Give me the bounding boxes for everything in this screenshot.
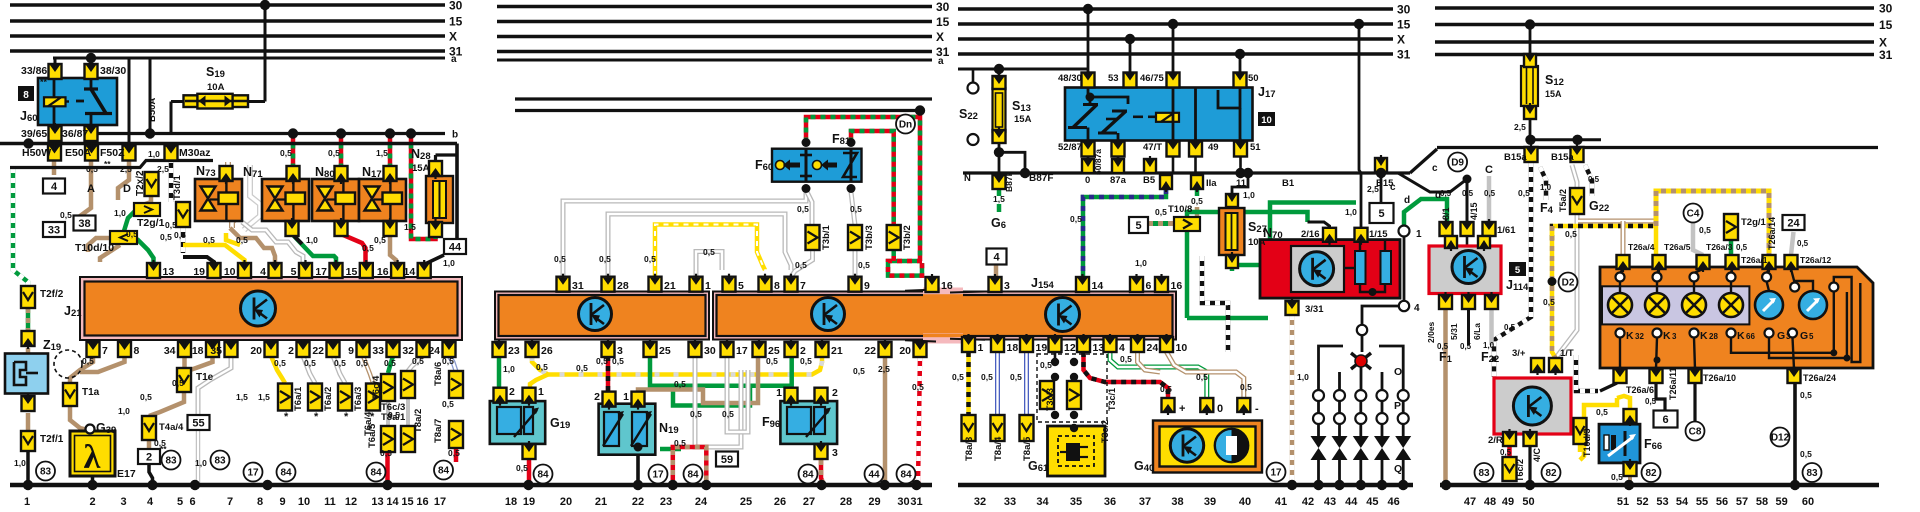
svg-text:T26a/14: T26a/14 bbox=[1767, 217, 1777, 250]
svg-text:50: 50 bbox=[1522, 496, 1534, 508]
svg-text:B87F: B87F bbox=[1004, 171, 1014, 192]
svg-text:1,0: 1,0 bbox=[118, 406, 130, 416]
svg-text:16: 16 bbox=[941, 280, 953, 292]
svg-text:47: 47 bbox=[1464, 496, 1476, 508]
svg-text:0,5: 0,5 bbox=[722, 409, 734, 419]
svg-text:11: 11 bbox=[1236, 178, 1247, 189]
svg-text:15A: 15A bbox=[1014, 114, 1032, 125]
svg-text:0,5: 0,5 bbox=[952, 372, 964, 382]
svg-text:17: 17 bbox=[315, 266, 327, 278]
svg-text:4: 4 bbox=[1119, 342, 1125, 354]
svg-text:2: 2 bbox=[832, 387, 838, 399]
svg-text:K: K bbox=[1663, 330, 1671, 342]
svg-text:0,5: 0,5 bbox=[674, 438, 686, 448]
svg-text:33: 33 bbox=[372, 345, 384, 357]
svg-text:23: 23 bbox=[660, 496, 672, 508]
svg-text:40: 40 bbox=[1239, 496, 1251, 508]
svg-text:1,5: 1,5 bbox=[376, 148, 388, 158]
svg-text:8: 8 bbox=[134, 345, 140, 357]
red/green drops from b line to injectors bbox=[291, 134, 296, 167]
svg-text:0,5: 0,5 bbox=[1736, 243, 1748, 252]
svg-text:48: 48 bbox=[1484, 496, 1496, 508]
svg-text:T1a: T1a bbox=[82, 387, 100, 398]
svg-text:26: 26 bbox=[774, 496, 786, 508]
line y=69 (feeds S13/S22, from bus30 vertical at 1088) bbox=[958, 68, 1088, 71]
svg-text:λ: λ bbox=[84, 439, 101, 476]
svg-text:34: 34 bbox=[1036, 496, 1049, 508]
staircase brown + white to pins 4/5 bbox=[230, 228, 275, 264]
svg-text:0,5: 0,5 bbox=[1070, 214, 1082, 224]
svg-text:0,5: 0,5 bbox=[795, 260, 807, 270]
svg-text:1,5: 1,5 bbox=[258, 392, 270, 402]
svg-text:1: 1 bbox=[1416, 229, 1422, 240]
svg-text:0,5: 0,5 bbox=[384, 358, 396, 368]
red/black pin3A -> N19 pin2 bbox=[606, 356, 611, 392]
connectors row2 bbox=[48, 146, 61, 161]
svg-text:0,5: 0,5 bbox=[60, 210, 72, 220]
green wire T2g/1 -> T10d/10 -> J21 pin13 bbox=[124, 210, 136, 231]
svg-text:83: 83 bbox=[214, 456, 226, 467]
svg-text:T26a/11: T26a/11 bbox=[1668, 367, 1678, 400]
C4 + T2g/1 + 24 feeds bbox=[1684, 204, 1703, 223]
svg-text:21: 21 bbox=[831, 345, 843, 357]
green wires pins 25/2 to sensor F96 bbox=[650, 356, 792, 386]
svg-text:**: ** bbox=[160, 444, 167, 454]
svg-text:0,5: 0,5 bbox=[356, 358, 368, 368]
svg-text:2,5: 2,5 bbox=[1514, 122, 1526, 132]
svg-text:12: 12 bbox=[345, 496, 357, 508]
svg-text:44: 44 bbox=[1345, 496, 1358, 508]
svg-text:14: 14 bbox=[386, 496, 399, 508]
svg-text:46: 46 bbox=[1387, 496, 1399, 508]
svg-text:2,5: 2,5 bbox=[120, 164, 132, 174]
svg-text:50: 50 bbox=[1248, 73, 1259, 84]
teal sensors bottom wires bbox=[527, 460, 532, 485]
svg-text:0,5: 0,5 bbox=[1160, 384, 1172, 394]
svg-text:25: 25 bbox=[659, 345, 671, 357]
svg-text:c: c bbox=[1390, 182, 1396, 193]
svg-text:2,5: 2,5 bbox=[1367, 184, 1379, 194]
svg-text:4: 4 bbox=[51, 181, 58, 193]
svg-text:2: 2 bbox=[89, 496, 95, 508]
svg-text:T3c/3: T3c/3 bbox=[1045, 388, 1055, 411]
svg-text:0,5: 0,5 bbox=[850, 204, 862, 214]
svg-text:19: 19 bbox=[523, 496, 535, 508]
svg-text:17: 17 bbox=[736, 345, 748, 357]
svg-text:18: 18 bbox=[1007, 342, 1019, 354]
svg-text:1/15: 1/15 bbox=[1369, 229, 1388, 240]
svg-text:0,5: 0,5 bbox=[165, 220, 177, 230]
svg-text:O: O bbox=[1394, 366, 1402, 378]
svg-text:28: 28 bbox=[617, 280, 629, 292]
svg-text:28: 28 bbox=[840, 496, 852, 508]
svg-text:0,5: 0,5 bbox=[1196, 372, 1208, 382]
pin 22B brown down / pin 20B red-white down bbox=[883, 356, 888, 485]
svg-text:0,5: 0,5 bbox=[1010, 372, 1022, 382]
svg-text:T3c/1: T3c/1 bbox=[1107, 388, 1117, 411]
svg-text:84: 84 bbox=[280, 468, 292, 479]
svg-text:29: 29 bbox=[868, 496, 880, 508]
wire gauge value labels panel 2 bbox=[993, 76, 1006, 89]
svg-text:36: 36 bbox=[1104, 496, 1116, 508]
svg-text:66: 66 bbox=[1746, 332, 1755, 341]
lambda probe G39 bbox=[70, 431, 115, 476]
svg-text:24: 24 bbox=[1147, 342, 1159, 354]
svg-text:0,5: 0,5 bbox=[1240, 382, 1252, 392]
svg-text:60: 60 bbox=[1802, 496, 1814, 508]
svg-text:B1: B1 bbox=[1282, 178, 1295, 189]
svg-text:17: 17 bbox=[247, 468, 259, 479]
svg-text:0,5: 0,5 bbox=[140, 392, 152, 402]
svg-text:1: 1 bbox=[538, 386, 544, 398]
svg-text:1,5: 1,5 bbox=[993, 194, 1005, 204]
svg-text:C: C bbox=[1485, 164, 1493, 176]
svg-text:1: 1 bbox=[705, 280, 711, 292]
injector pins bbox=[220, 166, 233, 181]
N73 top black bbox=[224, 166, 228, 180]
svg-text:49: 49 bbox=[1208, 142, 1219, 153]
green/brown wire from left down to Z19 bbox=[13, 168, 28, 286]
svg-text:K: K bbox=[1700, 330, 1708, 342]
svg-text:17: 17 bbox=[1270, 468, 1282, 479]
yellow diagonal from N73 bottom area bbox=[226, 233, 240, 245]
engine control unit J21 bbox=[80, 277, 462, 340]
wires from B15a pins bbox=[1494, 162, 1531, 377]
svg-text:19: 19 bbox=[1036, 342, 1048, 354]
svg-text:1,0: 1,0 bbox=[114, 208, 126, 218]
svg-text:N: N bbox=[964, 173, 971, 184]
hall sender G40 bbox=[1153, 421, 1262, 473]
svg-text:*: * bbox=[344, 411, 349, 423]
svg-text:21: 21 bbox=[664, 280, 676, 292]
svg-text:d: d bbox=[1404, 195, 1410, 206]
svg-text:0,5: 0,5 bbox=[1800, 390, 1812, 400]
svg-text:19: 19 bbox=[193, 266, 205, 278]
svg-text:8: 8 bbox=[774, 280, 780, 292]
svg-text:0,5: 0,5 bbox=[596, 356, 608, 366]
bus lines 30/15/X/31/a panel 2 bbox=[497, 5, 932, 8]
sensors G19 N19 F96 bbox=[490, 401, 545, 444]
svg-text:16: 16 bbox=[416, 496, 428, 508]
svg-text:0,5: 0,5 bbox=[236, 235, 248, 245]
svg-text:14: 14 bbox=[1092, 280, 1104, 292]
svg-text:0,5: 0,5 bbox=[1040, 360, 1052, 370]
svg-text:58: 58 bbox=[1756, 496, 1768, 508]
svg-text:2/R: 2/R bbox=[1488, 435, 1503, 446]
S13 bottom chain bbox=[998, 143, 1001, 175]
svg-text:T8a/4: T8a/4 bbox=[993, 436, 1004, 461]
svg-text:1,0: 1,0 bbox=[443, 258, 455, 268]
svg-text:0,5: 0,5 bbox=[362, 243, 374, 253]
svg-text:33: 33 bbox=[48, 225, 60, 237]
svg-text:43: 43 bbox=[1324, 496, 1336, 508]
svg-text:H50W: H50W bbox=[22, 147, 51, 159]
B15 vertical from bus 15 bbox=[1359, 24, 1361, 173]
bottom pin wires bbox=[1656, 383, 1665, 411]
svg-text:35: 35 bbox=[210, 345, 222, 357]
svg-text:T8a/3: T8a/3 bbox=[964, 437, 975, 461]
svg-text:0: 0 bbox=[1217, 403, 1223, 415]
svg-text:T26a/1: T26a/1 bbox=[1741, 255, 1768, 265]
svg-text:49: 49 bbox=[1502, 496, 1514, 508]
svg-text:84: 84 bbox=[438, 466, 450, 477]
3/31 wire down bbox=[1290, 315, 1295, 485]
svg-text:0,5: 0,5 bbox=[448, 448, 460, 458]
relay J60 bbox=[38, 78, 117, 125]
svg-text:53: 53 bbox=[1108, 73, 1119, 84]
injectors N73 N71 N80 N17 bbox=[195, 179, 242, 221]
svg-text:1,0: 1,0 bbox=[1243, 190, 1255, 200]
svg-text:82: 82 bbox=[1645, 468, 1657, 479]
svg-text:33: 33 bbox=[1004, 496, 1016, 508]
svg-text:30: 30 bbox=[1397, 3, 1411, 17]
svg-text:16: 16 bbox=[1171, 280, 1183, 292]
F66 + T10d/3 + yellow wires bbox=[1600, 383, 1617, 391]
fuse S12 15A from bus 15 bbox=[1529, 25, 1532, 57]
T6a/T8a cluster bbox=[278, 384, 292, 411]
S19 fuse bbox=[184, 95, 249, 107]
svg-text:0,5: 0,5 bbox=[981, 372, 993, 382]
svg-text:84: 84 bbox=[900, 470, 912, 481]
svg-text:6: 6 bbox=[1146, 280, 1152, 292]
svg-text:30: 30 bbox=[1879, 2, 1893, 16]
G39 black down bbox=[91, 474, 95, 485]
svg-text:IIa: IIa bbox=[1206, 178, 1217, 189]
svg-text:G: G bbox=[1777, 330, 1785, 342]
T6a cluster wires bbox=[271, 356, 285, 383]
svg-text:3: 3 bbox=[120, 496, 126, 508]
svg-text:1: 1 bbox=[24, 496, 30, 508]
wire yellow/brown to pin 1/T with junction D2 bbox=[1552, 226, 1556, 358]
svg-text:0,5: 0,5 bbox=[1596, 407, 1608, 417]
svg-text:1,0: 1,0 bbox=[1483, 341, 1495, 350]
svg-text:2,5: 2,5 bbox=[878, 364, 890, 374]
svg-text:1: 1 bbox=[978, 342, 984, 354]
wide beige/white band (A/D wires) bbox=[228, 162, 240, 228]
svg-text:*: * bbox=[314, 411, 319, 423]
svg-text:3: 3 bbox=[1672, 332, 1677, 341]
svg-text:15A: 15A bbox=[1545, 89, 1562, 99]
ignition distributor with spark plugs O/P/Q bbox=[1355, 355, 1367, 367]
svg-text:15A: 15A bbox=[412, 163, 430, 174]
line pins above bbox=[1082, 159, 1094, 173]
svg-text:0,5: 0,5 bbox=[1611, 472, 1623, 482]
svg-text:48/30: 48/30 bbox=[1058, 73, 1082, 84]
svg-text:7: 7 bbox=[102, 345, 108, 357]
brown N19 pin1 chain bbox=[638, 356, 758, 403]
svg-text:2: 2 bbox=[509, 386, 515, 398]
svg-text:1: 1 bbox=[776, 387, 782, 399]
svg-text:0,5: 0,5 bbox=[1191, 196, 1203, 206]
svg-text:0,5: 0,5 bbox=[1155, 207, 1167, 217]
svg-text:31: 31 bbox=[910, 496, 922, 508]
svg-text:4: 4 bbox=[147, 496, 154, 508]
svg-text:1: 1 bbox=[623, 391, 629, 403]
svg-text:0,5: 0,5 bbox=[1588, 175, 1600, 184]
green d-wire to 8/1 bbox=[1404, 199, 1447, 226]
svg-text:8: 8 bbox=[23, 90, 29, 101]
svg-text:T2x/2: T2x/2 bbox=[135, 170, 146, 196]
svg-text:2: 2 bbox=[594, 391, 600, 403]
svg-text:8/1: 8/1 bbox=[1441, 207, 1451, 220]
svg-text:T5a/2: T5a/2 bbox=[1558, 189, 1568, 212]
svg-text:0,5: 0,5 bbox=[690, 409, 702, 419]
svg-text:T4a/4: T4a/4 bbox=[159, 422, 184, 433]
relay J114 bbox=[1429, 246, 1501, 294]
black/white striped from N70 area down to G40 region bbox=[1202, 256, 1228, 352]
svg-text:0,5: 0,5 bbox=[334, 358, 346, 368]
svg-text:0,5: 0,5 bbox=[172, 378, 184, 388]
svg-text:**: ** bbox=[104, 159, 111, 169]
svg-text:0,5: 0,5 bbox=[1120, 354, 1132, 364]
svg-text:20: 20 bbox=[899, 345, 911, 357]
svg-text:0,5: 0,5 bbox=[82, 356, 94, 366]
svg-text:3/31: 3/31 bbox=[1305, 304, 1324, 315]
svg-text:B15a: B15a bbox=[1504, 152, 1527, 163]
svg-text:2/0es: 2/0es bbox=[1426, 321, 1436, 343]
svg-text:0,5: 0,5 bbox=[1504, 323, 1516, 332]
svg-text:T10d/3: T10d/3 bbox=[1582, 428, 1592, 457]
T2x/2 down brown bbox=[140, 196, 151, 206]
valve N28 with fuse 15A bbox=[426, 176, 453, 223]
svg-text:15: 15 bbox=[401, 496, 413, 508]
svg-text:42: 42 bbox=[1302, 496, 1314, 508]
svg-text:0,5: 0,5 bbox=[766, 356, 778, 366]
fuse S27 10A bbox=[1232, 173, 1248, 196]
cluster internal wiring bbox=[1620, 269, 1623, 273]
T connectors bbox=[145, 172, 159, 196]
svg-text:T6a/2: T6a/2 bbox=[323, 387, 334, 411]
svg-text:b: b bbox=[452, 130, 458, 141]
svg-text:E17: E17 bbox=[117, 468, 136, 480]
svg-text:0,5: 0,5 bbox=[1500, 448, 1512, 457]
svg-text:0,5: 0,5 bbox=[612, 356, 624, 366]
svg-text:25: 25 bbox=[740, 496, 752, 508]
svg-text:0,5: 0,5 bbox=[274, 358, 286, 368]
svg-text:37: 37 bbox=[1139, 496, 1151, 508]
svg-text:**: ** bbox=[40, 77, 48, 87]
svg-text:T3b/2: T3b/2 bbox=[902, 225, 913, 250]
svg-text:0,5: 0,5 bbox=[1565, 229, 1577, 239]
bus lines 30/15/X/31 panel 4 bbox=[1435, 6, 1874, 9]
svg-text:0,5: 0,5 bbox=[599, 254, 611, 264]
T3b connectors bbox=[806, 225, 820, 250]
svg-text:T3c/2: T3c/2 bbox=[1100, 420, 1110, 443]
svg-text:57: 57 bbox=[1736, 496, 1748, 508]
svg-text:T26a/4: T26a/4 bbox=[1628, 242, 1655, 252]
red/brown gate loop tracks 23-24 bbox=[673, 447, 707, 485]
svg-text:0,5: 0,5 bbox=[374, 235, 386, 245]
svg-text:53: 53 bbox=[1656, 496, 1668, 508]
svg-text:T10/8: T10/8 bbox=[1168, 204, 1192, 215]
svg-text:30: 30 bbox=[449, 0, 463, 13]
J154 bottom wires bbox=[966, 352, 971, 415]
svg-text:T6c/4: T6c/4 bbox=[371, 375, 382, 400]
svg-text:32: 32 bbox=[1635, 332, 1644, 341]
svg-text:44: 44 bbox=[449, 242, 462, 254]
svg-text:6: 6 bbox=[1662, 414, 1668, 426]
svg-text:1,0: 1,0 bbox=[1345, 207, 1357, 217]
svg-text:T2g/1: T2g/1 bbox=[1741, 217, 1767, 228]
svg-text:a: a bbox=[938, 56, 944, 67]
yellow long horizontal pin26->pin21B + G19 pin1 bbox=[532, 356, 822, 375]
box A/B bottom wires bbox=[497, 356, 502, 388]
red/black pin13 -> G40 + bbox=[1084, 352, 1169, 398]
svg-text:0: 0 bbox=[1085, 175, 1090, 186]
svg-text:51: 51 bbox=[1617, 496, 1629, 508]
svg-text:22: 22 bbox=[864, 345, 876, 357]
svg-text:6/La: 6/La bbox=[1472, 323, 1482, 340]
svg-text:3: 3 bbox=[832, 447, 838, 459]
svg-text:Dn: Dn bbox=[899, 120, 912, 131]
svg-text:T6a/5: T6a/5 bbox=[367, 423, 378, 448]
svg-text:C8: C8 bbox=[1689, 427, 1702, 438]
svg-text:8: 8 bbox=[257, 496, 263, 508]
svg-text:T8a/2: T8a/2 bbox=[413, 409, 424, 433]
svg-text:T2f/1: T2f/1 bbox=[40, 434, 64, 445]
svg-text:5: 5 bbox=[1809, 332, 1814, 341]
svg-text:T26a/6: T26a/6 bbox=[1626, 385, 1654, 395]
verticals from J17 top to buses bbox=[1087, 9, 1090, 73]
svg-text:1,0: 1,0 bbox=[503, 364, 515, 374]
svg-text:1,0: 1,0 bbox=[1135, 258, 1147, 268]
pin24 brown/white stub bbox=[1138, 352, 1161, 372]
svg-text:21: 21 bbox=[595, 496, 607, 508]
svg-text:36/87: 36/87 bbox=[62, 128, 88, 140]
svg-text:0,5: 0,5 bbox=[853, 366, 865, 376]
svg-text:4/15: 4/15 bbox=[1469, 202, 1479, 220]
svg-text:4: 4 bbox=[993, 252, 1000, 264]
svg-text:T6c/2: T6c/2 bbox=[1515, 459, 1525, 482]
injector bottom wires bbox=[292, 234, 336, 264]
green/blue striped wire line-pin -> J154 pin 14 bbox=[1083, 189, 1166, 277]
svg-text:6: 6 bbox=[189, 496, 195, 508]
svg-text:0,5: 0,5 bbox=[388, 410, 400, 420]
svg-text:0,5: 0,5 bbox=[1462, 189, 1474, 198]
svg-text:31: 31 bbox=[572, 280, 584, 292]
svg-text:B50A: B50A bbox=[147, 98, 158, 122]
svg-text:B5: B5 bbox=[1143, 175, 1156, 186]
svg-text:59: 59 bbox=[721, 454, 733, 466]
svg-text:84: 84 bbox=[370, 468, 382, 479]
svg-text:30: 30 bbox=[897, 496, 909, 508]
svg-text:16: 16 bbox=[377, 266, 389, 278]
svg-text:0,5: 0,5 bbox=[1484, 189, 1496, 198]
reference boxes 4/33/38/44/55/2 bbox=[43, 179, 65, 194]
svg-text:a: a bbox=[451, 54, 457, 65]
svg-text:T26a/10: T26a/10 bbox=[1703, 373, 1736, 383]
svg-text:44: 44 bbox=[868, 470, 880, 481]
svg-text:5/31: 5/31 bbox=[1449, 323, 1459, 340]
svg-text:0,5: 0,5 bbox=[160, 232, 172, 242]
control unit J154 bbox=[1046, 298, 1080, 332]
svg-text:0,5: 0,5 bbox=[203, 235, 215, 245]
J60 pins bbox=[49, 64, 62, 79]
svg-text:0,5: 0,5 bbox=[126, 229, 138, 239]
svg-text:1,0: 1,0 bbox=[148, 149, 160, 159]
greens panel3 bbox=[1187, 212, 1308, 318]
bus lines 30/15/X/31 panel 3 bbox=[958, 7, 1393, 10]
svg-text:B87F: B87F bbox=[1029, 173, 1053, 184]
svg-text:39/65: 39/65 bbox=[21, 128, 47, 140]
F60/F81 blue box bbox=[772, 149, 862, 182]
node lines panel 2 bbox=[515, 97, 932, 100]
svg-text:15: 15 bbox=[1397, 18, 1411, 32]
svg-text:15: 15 bbox=[1879, 18, 1893, 32]
brown diag below T10d/10 bbox=[100, 245, 120, 262]
svg-text:T2f/2: T2f/2 bbox=[40, 289, 64, 300]
svg-text:-: - bbox=[1255, 403, 1259, 415]
